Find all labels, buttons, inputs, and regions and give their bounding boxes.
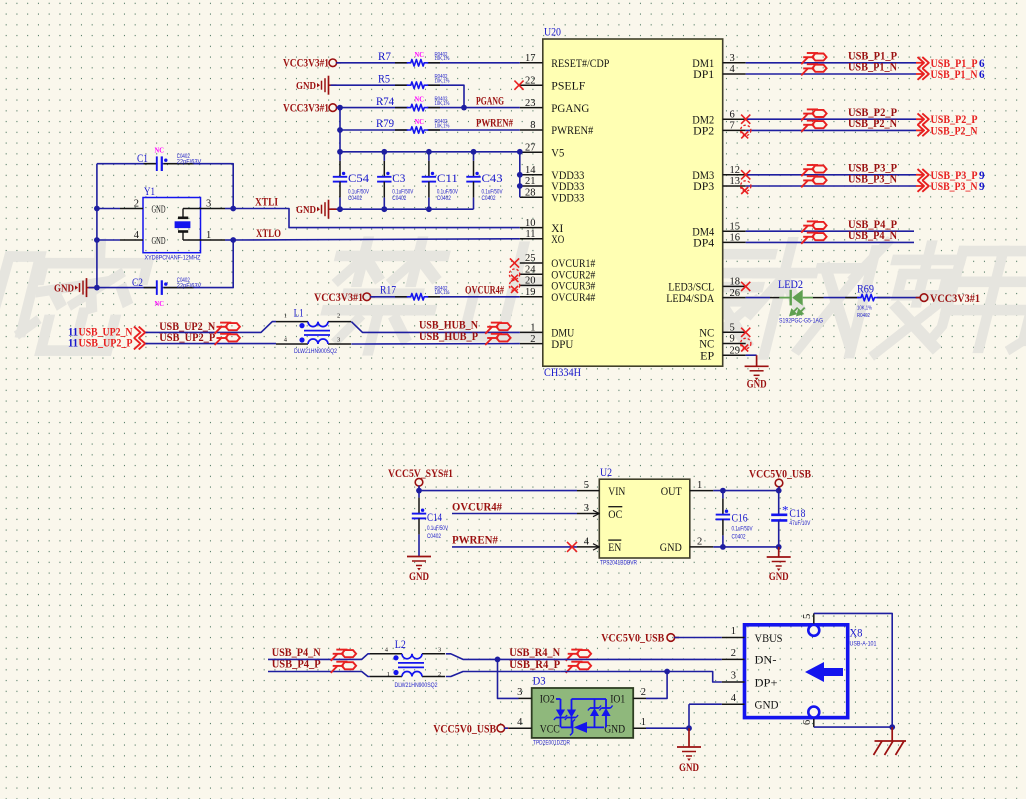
svg-text:USB_P2_P: USB_P2_P	[848, 107, 897, 119]
svg-text:XYD8PCNANF-12MHZ: XYD8PCNANF-12MHZ	[145, 255, 201, 262]
svg-text:EN: EN	[608, 542, 621, 554]
svg-text:USB_P1_N: USB_P1_N	[931, 69, 979, 81]
svg-text:C0402: C0402	[482, 195, 496, 202]
svg-text:19: 19	[525, 287, 536, 298]
svg-text:USB-A-101: USB-A-101	[850, 641, 877, 648]
svg-text:LED2: LED2	[778, 279, 803, 291]
svg-text:XTLI: XTLI	[255, 196, 279, 208]
svg-text:10K,1%: 10K,1%	[435, 123, 450, 129]
svg-text:C0402: C0402	[427, 533, 441, 540]
svg-text:5: 5	[584, 480, 589, 491]
svg-text:VCC5V0_USB: VCC5V0_USB	[749, 468, 811, 480]
svg-text:28: 28	[525, 187, 536, 198]
svg-text:GND: GND	[152, 204, 166, 215]
svg-text:C14: C14	[427, 512, 442, 524]
svg-text:3: 3	[438, 647, 441, 654]
svg-text:5: 5	[730, 323, 735, 334]
svg-text:1: 1	[697, 480, 702, 491]
svg-text:10K,1%: 10K,1%	[435, 101, 450, 107]
svg-text:L2: L2	[395, 639, 406, 651]
svg-text:0.1uF/50V: 0.1uF/50V	[427, 525, 449, 532]
svg-text:USB_HUB_P: USB_HUB_P	[419, 331, 478, 343]
svg-text:NC: NC	[415, 117, 425, 126]
svg-text:PGANG: PGANG	[476, 95, 504, 107]
svg-text:USB_UP2_N: USB_UP2_N	[79, 326, 134, 338]
svg-text:C11: C11	[437, 173, 458, 185]
svg-text:1: 1	[206, 230, 211, 241]
svg-text:3: 3	[337, 337, 340, 344]
svg-text:XI: XI	[551, 223, 563, 235]
svg-text:C54: C54	[348, 173, 369, 185]
svg-text:10K,1%: 10K,1%	[435, 290, 450, 296]
svg-text:7: 7	[730, 121, 735, 132]
svg-text:11: 11	[525, 229, 535, 240]
svg-text:GND: GND	[755, 700, 779, 712]
svg-text:OVCUR4#: OVCUR4#	[465, 284, 504, 296]
svg-text:22pF/63V: 22pF/63V	[177, 158, 202, 165]
svg-text:9: 9	[979, 170, 985, 182]
svg-text:R5: R5	[378, 73, 390, 85]
svg-text:IO2: IO2	[540, 694, 555, 706]
svg-text:C18: C18	[789, 508, 805, 520]
svg-text:USB_P2_P: USB_P2_P	[931, 114, 978, 126]
svg-text:USB_R4_N: USB_R4_N	[509, 647, 561, 659]
svg-text:LED4/SDA: LED4/SDA	[666, 293, 715, 305]
svg-text:GND: GND	[660, 542, 682, 554]
svg-text:TPD2E001DZDR: TPD2E001DZDR	[533, 740, 570, 747]
svg-text:VCC3V3#1: VCC3V3#1	[314, 292, 363, 304]
svg-text:USB_P2_N: USB_P2_N	[848, 118, 898, 130]
svg-text:GND: GND	[747, 379, 767, 391]
svg-text:C0402: C0402	[732, 534, 746, 541]
svg-text:2: 2	[337, 312, 340, 319]
svg-text:DP2: DP2	[693, 126, 714, 138]
svg-text:R0402: R0402	[857, 313, 870, 319]
svg-text:DP1: DP1	[693, 69, 714, 81]
svg-text:USB_UP2_N: USB_UP2_N	[159, 321, 216, 333]
svg-text:USB_HUB_N: USB_HUB_N	[419, 320, 479, 332]
svg-text:USB_P3_N: USB_P3_N	[931, 181, 979, 193]
svg-text:25: 25	[525, 253, 536, 264]
svg-text:GND: GND	[54, 283, 74, 295]
svg-text:*: *	[782, 503, 789, 518]
svg-text:C1: C1	[137, 153, 148, 165]
svg-text:6: 6	[979, 58, 985, 70]
svg-text:4: 4	[731, 693, 737, 704]
svg-text:DP+: DP+	[755, 677, 778, 689]
svg-text:4: 4	[134, 230, 140, 241]
svg-text:4: 4	[517, 717, 523, 728]
svg-text:NC: NC	[699, 339, 714, 351]
svg-text:NC: NC	[155, 145, 165, 154]
svg-text:10: 10	[525, 218, 536, 229]
svg-text:9: 9	[730, 334, 735, 345]
svg-text:VCC5V0_USB: VCC5V0_USB	[433, 723, 496, 735]
svg-text:IO1: IO1	[610, 694, 625, 706]
svg-text:15: 15	[730, 221, 741, 232]
svg-text:22pF/63V: 22pF/63V	[177, 282, 202, 289]
svg-text:9: 9	[979, 181, 985, 193]
svg-text:26: 26	[730, 288, 741, 299]
svg-text:6: 6	[979, 69, 985, 81]
svg-text:OVCUR4#: OVCUR4#	[452, 501, 502, 513]
svg-text:0.1uF/50V: 0.1uF/50V	[732, 526, 754, 533]
svg-text:2: 2	[641, 687, 646, 698]
svg-text:U20: U20	[544, 27, 561, 39]
svg-text:USB_P4_P: USB_P4_P	[272, 659, 321, 671]
svg-text:VCC3V3#1: VCC3V3#1	[283, 58, 329, 70]
svg-text:5: 5	[802, 614, 813, 619]
svg-text:13: 13	[730, 176, 741, 187]
svg-text:8: 8	[530, 120, 535, 131]
svg-text:C3: C3	[392, 173, 405, 185]
svg-text:DM1: DM1	[692, 58, 714, 70]
svg-text:12: 12	[730, 165, 741, 176]
svg-text:OVCUR4#: OVCUR4#	[551, 292, 595, 304]
svg-text:GND: GND	[296, 204, 316, 216]
svg-text:OC: OC	[608, 509, 622, 521]
svg-text:DM3: DM3	[692, 170, 714, 182]
svg-text:USB_UP2_P: USB_UP2_P	[79, 338, 133, 350]
svg-text:VCC: VCC	[540, 724, 560, 736]
svg-text:DMU: DMU	[551, 328, 574, 340]
svg-text:PGANG: PGANG	[551, 103, 589, 115]
svg-text:17: 17	[525, 53, 536, 64]
svg-text:1: 1	[284, 312, 287, 319]
svg-text:R17: R17	[380, 284, 396, 296]
svg-text:NC: NC	[155, 299, 165, 308]
svg-text:USB_P3_N: USB_P3_N	[848, 174, 898, 186]
svg-text:1: 1	[387, 671, 390, 678]
svg-text:GND: GND	[409, 571, 429, 583]
svg-text:EP: EP	[700, 350, 714, 362]
svg-text:DN-: DN-	[755, 655, 777, 667]
svg-text:USB_P1_P: USB_P1_P	[848, 51, 897, 63]
svg-text:R69: R69	[857, 284, 874, 296]
svg-text:USB_R4_P: USB_R4_P	[509, 659, 560, 671]
svg-text:NC: NC	[699, 328, 714, 340]
svg-text:OVCUR1#: OVCUR1#	[551, 258, 595, 270]
svg-text:GND: GND	[152, 236, 166, 247]
svg-text:VCC3V3#1: VCC3V3#1	[283, 103, 329, 115]
svg-text:DP3: DP3	[693, 181, 714, 193]
svg-text:Y1: Y1	[144, 186, 155, 198]
svg-text:USB_P4_N: USB_P4_N	[848, 230, 898, 242]
svg-text:2: 2	[697, 536, 702, 547]
svg-text:V5: V5	[551, 148, 564, 160]
svg-text:R7: R7	[378, 51, 391, 63]
svg-text:L1: L1	[294, 308, 304, 320]
svg-text:C0402: C0402	[348, 195, 362, 202]
svg-text:OVCUR3#: OVCUR3#	[551, 281, 595, 293]
svg-text:USB_P1_N: USB_P1_N	[848, 62, 898, 74]
svg-text:C0402: C0402	[392, 195, 406, 202]
svg-text:CH334H: CH334H	[544, 367, 581, 379]
svg-text:3: 3	[731, 671, 736, 682]
svg-text:10K,1%: 10K,1%	[435, 79, 450, 85]
svg-text:S192PGC-G5-1AG: S192PGC-G5-1AG	[779, 318, 823, 325]
svg-text:NC: NC	[415, 95, 425, 104]
svg-text:USB_P2_N: USB_P2_N	[931, 125, 979, 137]
svg-text:PSELF: PSELF	[551, 80, 585, 92]
svg-text:PWREN#: PWREN#	[452, 535, 498, 547]
svg-text:USB_P3_P: USB_P3_P	[931, 170, 978, 182]
svg-text:GND: GND	[296, 80, 316, 92]
svg-text:USB_P4_P: USB_P4_P	[848, 219, 897, 231]
svg-text:XTLO: XTLO	[256, 228, 281, 240]
svg-text:DM2: DM2	[692, 114, 714, 126]
svg-text:14: 14	[525, 165, 536, 176]
svg-text:10K,1%: 10K,1%	[435, 56, 450, 62]
svg-text:R74: R74	[376, 96, 394, 108]
svg-text:OVCUR2#: OVCUR2#	[551, 269, 595, 281]
svg-text:VDD33: VDD33	[551, 181, 584, 193]
svg-text:2: 2	[134, 198, 139, 209]
svg-text:6: 6	[802, 720, 813, 725]
svg-text:22: 22	[525, 75, 536, 86]
svg-text:USB_P1_P: USB_P1_P	[931, 58, 978, 70]
svg-text:24: 24	[525, 264, 536, 275]
svg-text:4: 4	[584, 536, 590, 547]
svg-text:GND: GND	[679, 762, 699, 774]
svg-text:NC: NC	[415, 50, 425, 59]
svg-text:2: 2	[731, 648, 736, 659]
svg-text:1: 1	[641, 717, 646, 728]
svg-text:18: 18	[730, 277, 741, 288]
svg-text:3: 3	[584, 503, 589, 514]
svg-text:GND: GND	[769, 571, 789, 583]
svg-text:VIN: VIN	[608, 486, 625, 498]
svg-text:VCC5V0_USB: VCC5V0_USB	[601, 632, 664, 644]
svg-text:USB_P4_N: USB_P4_N	[272, 647, 322, 659]
svg-text:U2: U2	[600, 467, 612, 479]
svg-text:C43: C43	[482, 173, 503, 185]
svg-text:29: 29	[730, 345, 741, 356]
svg-text:C16: C16	[732, 513, 748, 525]
svg-text:D3: D3	[533, 676, 546, 688]
svg-text:X8: X8	[850, 628, 863, 640]
svg-text:2: 2	[530, 334, 535, 345]
svg-text:USB_P3_P: USB_P3_P	[848, 163, 897, 175]
svg-text:3: 3	[730, 53, 735, 64]
svg-text:6: 6	[730, 109, 735, 120]
svg-text:10K,1%: 10K,1%	[857, 306, 872, 312]
svg-text:OUT: OUT	[661, 486, 682, 498]
svg-text:3: 3	[517, 687, 522, 698]
svg-text:C2: C2	[132, 277, 143, 289]
svg-text:1: 1	[731, 626, 736, 637]
svg-text:LED3/SCL: LED3/SCL	[668, 282, 714, 294]
svg-text:16: 16	[730, 233, 741, 244]
svg-text:11: 11	[68, 326, 78, 338]
svg-text:VCC3V3#1: VCC3V3#1	[930, 293, 980, 305]
svg-text:23: 23	[525, 98, 536, 109]
svg-text:VDD33: VDD33	[551, 170, 584, 182]
svg-text:XO: XO	[551, 234, 564, 246]
svg-text:27: 27	[525, 143, 536, 154]
svg-text:R79: R79	[376, 118, 394, 130]
svg-text:21: 21	[525, 176, 536, 187]
svg-text:USB_UP2_P: USB_UP2_P	[159, 332, 215, 344]
svg-text:VBUS: VBUS	[755, 633, 783, 645]
svg-text:3: 3	[206, 198, 211, 209]
svg-text:1: 1	[530, 323, 535, 334]
svg-text:4: 4	[730, 64, 736, 75]
svg-text:DM4: DM4	[692, 226, 714, 238]
svg-text:PWREN#: PWREN#	[476, 118, 513, 130]
svg-text:DPU: DPU	[551, 339, 573, 351]
svg-text:20: 20	[525, 276, 536, 287]
svg-text:47uF/10V: 47uF/10V	[789, 520, 811, 527]
svg-text:2: 2	[438, 671, 441, 678]
svg-text:C0402: C0402	[437, 195, 451, 202]
svg-text:11: 11	[68, 338, 78, 350]
svg-text:GND: GND	[604, 724, 625, 736]
svg-text:TPS2041BDBVR: TPS2041BDBVR	[600, 560, 637, 567]
svg-text:DLW21HN900SQ2: DLW21HN900SQ2	[294, 348, 337, 355]
svg-text:PWREN#: PWREN#	[551, 125, 593, 137]
svg-text:DP4: DP4	[693, 238, 714, 250]
svg-text:DLW21HN900SQ2: DLW21HN900SQ2	[395, 682, 438, 689]
svg-text:VDD33: VDD33	[551, 192, 584, 204]
svg-text:RESET#/CDP: RESET#/CDP	[551, 58, 609, 70]
